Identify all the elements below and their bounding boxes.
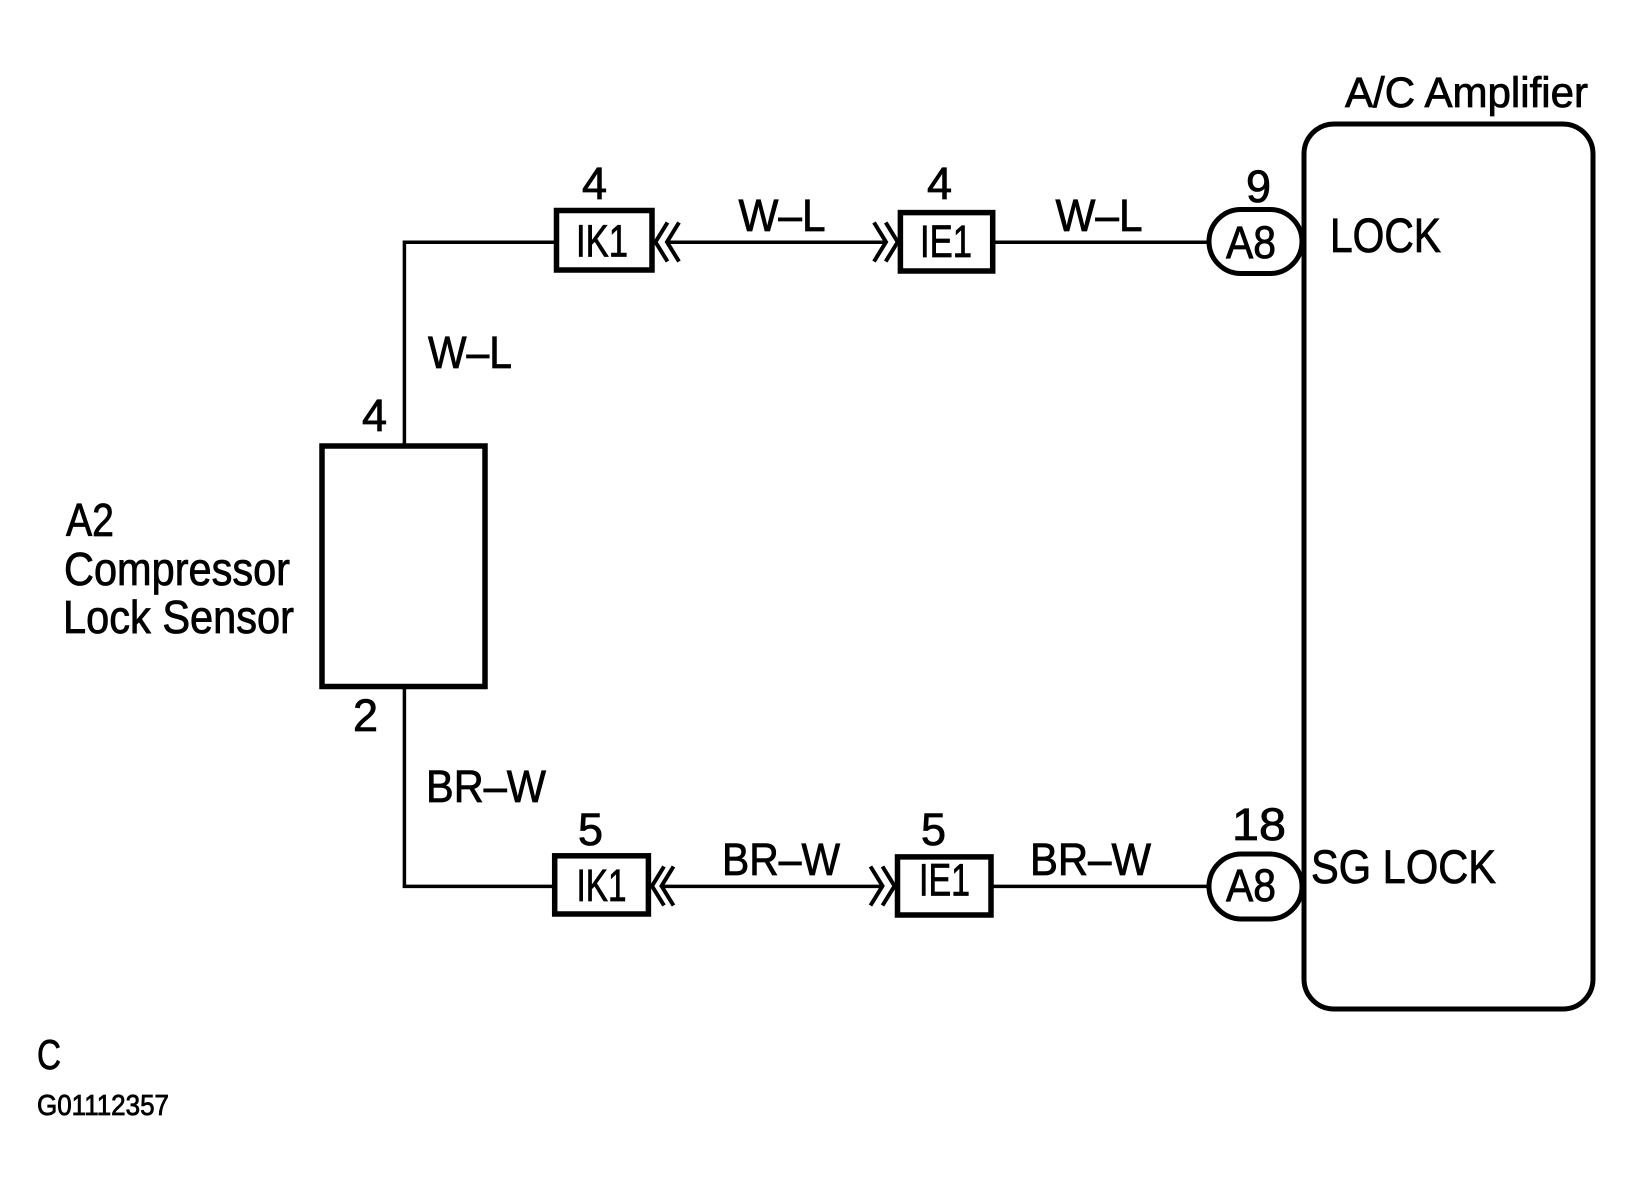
svg-text:4: 4 — [362, 390, 387, 441]
wire: sensor pin 2 down then right to IK1 (bottom) — [404, 686, 556, 886]
svg-text:5: 5 — [578, 804, 603, 855]
svg-text:BR–W: BR–W — [426, 761, 546, 812]
svg-text:W–L: W–L — [428, 327, 512, 378]
svg-text:BR–W: BR–W — [1030, 834, 1151, 885]
svg-text:SG LOCK: SG LOCK — [1311, 840, 1496, 893]
connector A8 pin 9 oval — [1209, 210, 1302, 274]
svg-text:A8: A8 — [1226, 860, 1276, 911]
svg-text:BR–W: BR–W — [722, 834, 840, 885]
wire: sensor pin 4 up then right to IK1 — [404, 242, 556, 446]
A2 Compressor Lock Sensor label — [63, 494, 294, 643]
svg-text:IE1: IE1 — [920, 216, 972, 267]
svg-text:A/C Amplifier: A/C Amplifier — [1345, 69, 1588, 117]
connector arrows << (top, at IK1) — [656, 223, 680, 262]
svg-text:2: 2 — [353, 690, 378, 741]
svg-text:G01112357: G01112357 — [37, 1090, 169, 1122]
wire IE1 to A8 (top) — [995, 240, 1208, 244]
svg-text:C: C — [37, 1031, 61, 1078]
svg-text:A2: A2 — [66, 494, 114, 546]
A/C Amplifier box U1 — [1304, 124, 1593, 1009]
wire IK1 to IE1 (bottom) — [663, 885, 882, 889]
svg-text:A8: A8 — [1226, 217, 1276, 268]
svg-text:W–L: W–L — [739, 190, 826, 241]
connector arrows >> (top, at IE1) — [874, 223, 898, 262]
wire IE1 to A8 (bottom) — [994, 885, 1209, 889]
svg-text:IE1: IE1 — [919, 855, 970, 906]
svg-text:4: 4 — [582, 158, 607, 209]
svg-text:Lock Sensor: Lock Sensor — [63, 591, 294, 643]
svg-text:5: 5 — [921, 804, 946, 855]
junction connector IE1 (bottom) — [898, 855, 992, 916]
svg-text:W–L: W–L — [1056, 190, 1143, 241]
svg-text:IK1: IK1 — [576, 216, 628, 267]
svg-text:4: 4 — [927, 158, 952, 209]
wire IK1 to IE1 (top) — [667, 240, 886, 244]
svg-text:9: 9 — [1246, 161, 1271, 212]
connector arrows << (bottom, at IK1) — [652, 867, 674, 906]
svg-text:Compressor: Compressor — [64, 543, 290, 595]
svg-text:IK1: IK1 — [577, 860, 627, 911]
connector A8 pin 18 oval — [1209, 854, 1302, 919]
sensor A2 Compressor Lock Sensor box — [322, 446, 485, 687]
junction connector IK1 (bottom) — [555, 856, 649, 914]
junction connector IE1 (top) — [900, 213, 992, 271]
svg-text:18: 18 — [1232, 799, 1286, 850]
svg-text:LOCK: LOCK — [1330, 210, 1441, 263]
junction connector IK1 (top) — [557, 211, 653, 271]
connector arrows >> (bottom, at IE1) — [871, 867, 895, 906]
